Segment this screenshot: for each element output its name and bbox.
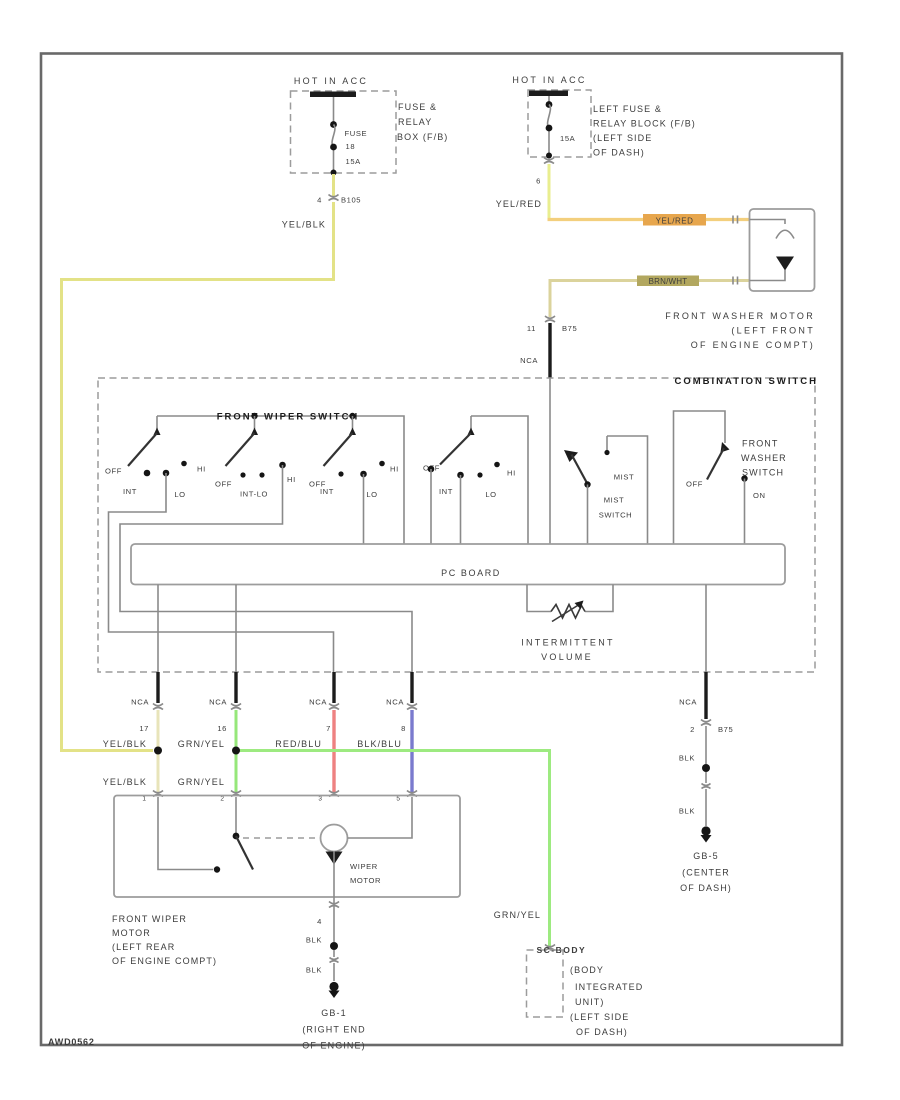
svg-text:UNIT): UNIT) <box>575 997 605 1007</box>
svg-text:(RIGHT END: (RIGHT END <box>302 1025 365 1035</box>
svg-text:LO: LO <box>174 490 185 499</box>
intermittent volume <box>521 585 615 663</box>
wire motor feed pin16 <box>235 797 237 833</box>
connector arcs at wiper motor box entries <box>153 791 163 797</box>
svg-text:B75: B75 <box>562 324 577 333</box>
svg-text:18: 18 <box>346 142 356 151</box>
svg-text:NCA: NCA <box>679 698 697 707</box>
wire motor ground <box>333 852 335 898</box>
fuse F18 15A <box>330 121 337 128</box>
wire YEL/BLK colored segment pin17 <box>157 710 160 792</box>
node bus G3 <box>349 413 355 419</box>
node bus G2 <box>251 413 257 419</box>
svg-text:5: 5 <box>396 796 400 803</box>
wire fuse feed <box>548 96 550 155</box>
left fuse &amp; relay block dashed box <box>528 90 591 157</box>
wire intermittent volume loop <box>527 585 613 612</box>
svg-text:FRONT WIPER SWITCH: FRONT WIPER SWITCH <box>217 412 360 423</box>
svg-text:YEL/BLK: YEL/BLK <box>103 739 147 749</box>
svg-text:NCA: NCA <box>520 356 538 365</box>
wire YEL/RED feed to washer motor <box>548 218 750 221</box>
svg-text:BLK: BLK <box>306 936 322 945</box>
wire washer motor return <box>550 281 750 318</box>
node <box>702 764 710 772</box>
svg-text:11: 11 <box>527 324 536 333</box>
svg-text:FUSE &: FUSE & <box>398 102 437 112</box>
ground GB-5 <box>701 826 710 835</box>
mist switch rail <box>607 436 648 544</box>
svg-text:LO: LO <box>485 490 496 499</box>
svg-text:ON: ON <box>753 491 766 500</box>
svg-text:2: 2 <box>690 725 695 734</box>
node park contact <box>214 866 220 872</box>
svg-text:NCA: NCA <box>309 698 327 707</box>
svg-text:INTERMITTENT: INTERMITTENT <box>521 638 615 648</box>
node at block exit <box>546 153 552 159</box>
wire BLK to ground <box>705 726 707 764</box>
svg-text:HI: HI <box>507 469 516 478</box>
svg-text:HI: HI <box>197 465 206 474</box>
highlight label block YEL/RED <box>643 214 706 226</box>
wire washer ON to PC board <box>744 479 746 545</box>
svg-text:(CENTER: (CENTER <box>682 868 730 878</box>
wiper switch gang 4 <box>423 416 528 544</box>
svg-text:WASHER: WASHER <box>741 453 787 463</box>
wire long YEL/BLK run: fuse down, left, down, right to wiper feed <box>62 202 334 751</box>
svg-text:(LEFT SIDE: (LEFT SIDE <box>570 1012 629 1022</box>
svg-text:OFF: OFF <box>686 480 703 489</box>
connector B105 pin 4 <box>329 195 339 201</box>
svg-text:COMBINATION SWITCH: COMBINATION SWITCH <box>675 376 818 387</box>
arm G2 <box>254 416 256 429</box>
svg-text:HOT IN ACC: HOT IN ACC <box>512 75 586 85</box>
svg-text:2: 2 <box>220 796 224 803</box>
mist switch arm <box>564 450 578 462</box>
wire G4 INT contact to PC board <box>460 475 462 544</box>
svg-text:GB-5: GB-5 <box>693 851 718 861</box>
svg-text:YEL/RED: YEL/RED <box>496 199 542 209</box>
svg-text:NCA: NCA <box>209 698 227 707</box>
wire motor ground down <box>333 897 335 942</box>
svg-text:NCA: NCA <box>386 698 404 707</box>
svg-text:INT-LO: INT-LO <box>240 490 268 499</box>
svg-text:RED/BLU: RED/BLU <box>275 739 322 749</box>
svg-text:WIPER: WIPER <box>350 862 378 871</box>
node junction YEL/BLK <box>154 747 162 755</box>
wire pin16 drop from PC board <box>235 585 237 673</box>
svg-text:VOLUME: VOLUME <box>541 652 593 662</box>
variable resistor zigzag <box>551 605 585 619</box>
node junction GRN/YEL <box>232 747 240 755</box>
washer motor box <box>750 209 815 291</box>
highlight label block BRN/WHT <box>637 276 699 287</box>
wiper motor box <box>114 796 460 898</box>
wire washer return inside switch <box>549 378 551 544</box>
fuse &amp; relay box F/B dashed box <box>291 91 397 173</box>
bus bar <box>529 91 568 97</box>
svg-text:SWITCH: SWITCH <box>599 511 633 520</box>
node at box exit <box>331 170 337 176</box>
svg-text:INT: INT <box>320 487 334 496</box>
svg-text:(LEFT FRONT: (LEFT FRONT <box>731 326 815 336</box>
node mist fixed contact <box>604 450 609 455</box>
connector pin 6 <box>544 158 554 164</box>
node ground wire <box>330 942 338 950</box>
node washer ON contact <box>741 475 747 481</box>
svg-text:17: 17 <box>139 724 149 733</box>
svg-text:OF DASH): OF DASH) <box>576 1027 628 1037</box>
bold stub switch ground <box>704 672 707 719</box>
front wiper switch bus <box>157 416 404 544</box>
svg-text:BLK: BLK <box>306 966 322 975</box>
svg-text:MIST: MIST <box>614 473 635 482</box>
bold wire stubs pins 17 16 7 8 <box>156 672 159 703</box>
svg-text:(LEFT REAR: (LEFT REAR <box>112 942 175 952</box>
svg-text:B105: B105 <box>341 196 361 205</box>
svg-text:RELAY: RELAY <box>398 117 432 127</box>
wire G3 LO contact to PC board <box>363 474 365 544</box>
svg-text:SC-BODY: SC-BODY <box>537 945 587 955</box>
connector ticks at washer motor <box>733 216 738 285</box>
svg-text:SWITCH: SWITCH <box>742 468 784 478</box>
svg-text:(LEFT SIDE: (LEFT SIDE <box>593 133 652 143</box>
svg-text:3: 3 <box>318 796 322 803</box>
svg-text:OF DASH): OF DASH) <box>680 883 732 893</box>
svg-text:1: 1 <box>142 796 146 803</box>
arm G3 <box>352 416 354 429</box>
svg-text:OFF: OFF <box>105 467 122 476</box>
wire GRN/YEL long run to body integrated unit <box>236 751 550 947</box>
wire yellow drop from right fuse <box>548 164 551 220</box>
svg-text:OF ENGINE COMPT): OF ENGINE COMPT) <box>691 340 815 350</box>
svg-text:MOTOR: MOTOR <box>350 876 381 885</box>
PC board <box>131 544 785 585</box>
connector arcs inline <box>702 784 711 789</box>
mechanical link dashed <box>243 837 319 839</box>
arm G4 <box>470 416 472 429</box>
connector arcs at body unit <box>545 945 555 951</box>
arm G1 <box>156 416 158 429</box>
svg-text:GB-1: GB-1 <box>321 1008 346 1018</box>
wire RED/BLU colored segment pin7 <box>332 710 335 792</box>
wiper motor M <box>321 825 348 852</box>
svg-text:YEL/BLK: YEL/BLK <box>103 777 147 787</box>
washer switch rail <box>674 411 726 544</box>
wire yellow below left fuse <box>332 174 335 196</box>
svg-text:INTEGRATED: INTEGRATED <box>575 982 643 992</box>
svg-text:NCA: NCA <box>131 698 149 707</box>
wire fuse feed <box>333 97 335 173</box>
svg-text:LO: LO <box>366 490 377 499</box>
washer switch arm <box>721 442 730 453</box>
ground GB-1 <box>329 982 338 991</box>
svg-text:YEL/RED: YEL/RED <box>656 217 694 226</box>
fuse 15A <box>546 101 553 108</box>
svg-text:15A: 15A <box>560 134 576 143</box>
svg-text:BLK: BLK <box>679 754 695 763</box>
svg-text:4: 4 <box>317 917 322 926</box>
wire switch ground from PC board <box>705 585 707 673</box>
svg-text:BLK/BLU: BLK/BLU <box>357 739 402 749</box>
wiper switch gang 3 <box>309 416 399 499</box>
svg-text:(BODY: (BODY <box>570 965 604 975</box>
svg-text:GRN/YEL: GRN/YEL <box>178 739 225 749</box>
svg-text:FRONT WASHER MOTOR: FRONT WASHER MOTOR <box>665 311 815 321</box>
wire BLK/BLU colored segment pin8 <box>410 710 413 792</box>
svg-text:OF ENGINE): OF ENGINE) <box>302 1041 366 1051</box>
park switch arm <box>233 833 240 840</box>
svg-text:RELAY BLOCK (F/B): RELAY BLOCK (F/B) <box>593 119 696 129</box>
front washer switch <box>674 411 787 544</box>
connector arcs inline <box>330 958 339 963</box>
wire G2 HI contact to blue output <box>120 465 412 672</box>
washer pump symbol <box>750 220 786 225</box>
svg-text:BOX (F/B): BOX (F/B) <box>397 132 448 142</box>
svg-text:LEFT FUSE &: LEFT FUSE & <box>593 104 662 114</box>
connector arcs below bold stubs <box>153 704 163 710</box>
svg-text:FRONT WIPER: FRONT WIPER <box>112 914 187 924</box>
svg-text:FUSE: FUSE <box>345 129 368 138</box>
connector B75 pin 11 on washer return <box>545 316 555 322</box>
svg-text:GRN/YEL: GRN/YEL <box>494 910 541 920</box>
svg-text:B75: B75 <box>718 725 733 734</box>
svg-text:OF DASH): OF DASH) <box>593 148 645 158</box>
bus bar (M/B) <box>310 92 356 98</box>
svg-text:6: 6 <box>536 177 541 186</box>
svg-text:YEL/BLK: YEL/BLK <box>282 220 326 230</box>
wire mist contact to PC board <box>587 485 589 545</box>
svg-text:GRN/YEL: GRN/YEL <box>178 777 225 787</box>
svg-text:MOTOR: MOTOR <box>112 928 151 938</box>
gang 4 feed rail <box>471 416 528 544</box>
svg-text:OFF: OFF <box>215 480 232 489</box>
body integrated unit dashed box <box>527 950 564 1017</box>
svg-text:16: 16 <box>217 724 227 733</box>
connector B75 pin 2 <box>701 720 711 726</box>
svg-text:AWD0562: AWD0562 <box>48 1037 95 1047</box>
svg-text:FRONT: FRONT <box>742 439 779 449</box>
wiper switch gang 2 <box>215 416 296 499</box>
svg-text:INT: INT <box>439 487 453 496</box>
svg-text:BRN/WHT: BRN/WHT <box>649 277 688 286</box>
svg-text:PC BOARD: PC BOARD <box>441 568 501 578</box>
wiper switch gang 1 <box>105 416 206 499</box>
connector arcs below motor box <box>329 902 339 908</box>
svg-text:15A: 15A <box>346 157 362 166</box>
svg-text:MIST: MIST <box>604 496 625 505</box>
svg-text:8: 8 <box>401 724 406 733</box>
wire park switch feed <box>158 797 213 870</box>
svg-text:BLK: BLK <box>679 807 695 816</box>
mist switch <box>564 436 648 544</box>
wire G4 OFF contact to PC board <box>430 469 432 544</box>
combination switch dashed box <box>98 378 815 672</box>
wire G1 LO contact to red output <box>109 473 334 672</box>
svg-text:INT: INT <box>123 487 137 496</box>
wire GRN/YEL colored segment pin16 <box>235 710 238 792</box>
svg-text:HI: HI <box>390 465 399 474</box>
svg-text:7: 7 <box>326 724 331 733</box>
svg-text:HOT IN ACC: HOT IN ACC <box>294 76 368 86</box>
wire motor to pin8 <box>348 797 413 838</box>
svg-text:4: 4 <box>317 196 322 205</box>
svg-text:OF ENGINE COMPT): OF ENGINE COMPT) <box>112 956 217 966</box>
wire pin17 drop from PC board <box>157 585 159 673</box>
wire bold washer return into combination switch <box>548 323 551 378</box>
svg-text:HI: HI <box>287 475 296 484</box>
